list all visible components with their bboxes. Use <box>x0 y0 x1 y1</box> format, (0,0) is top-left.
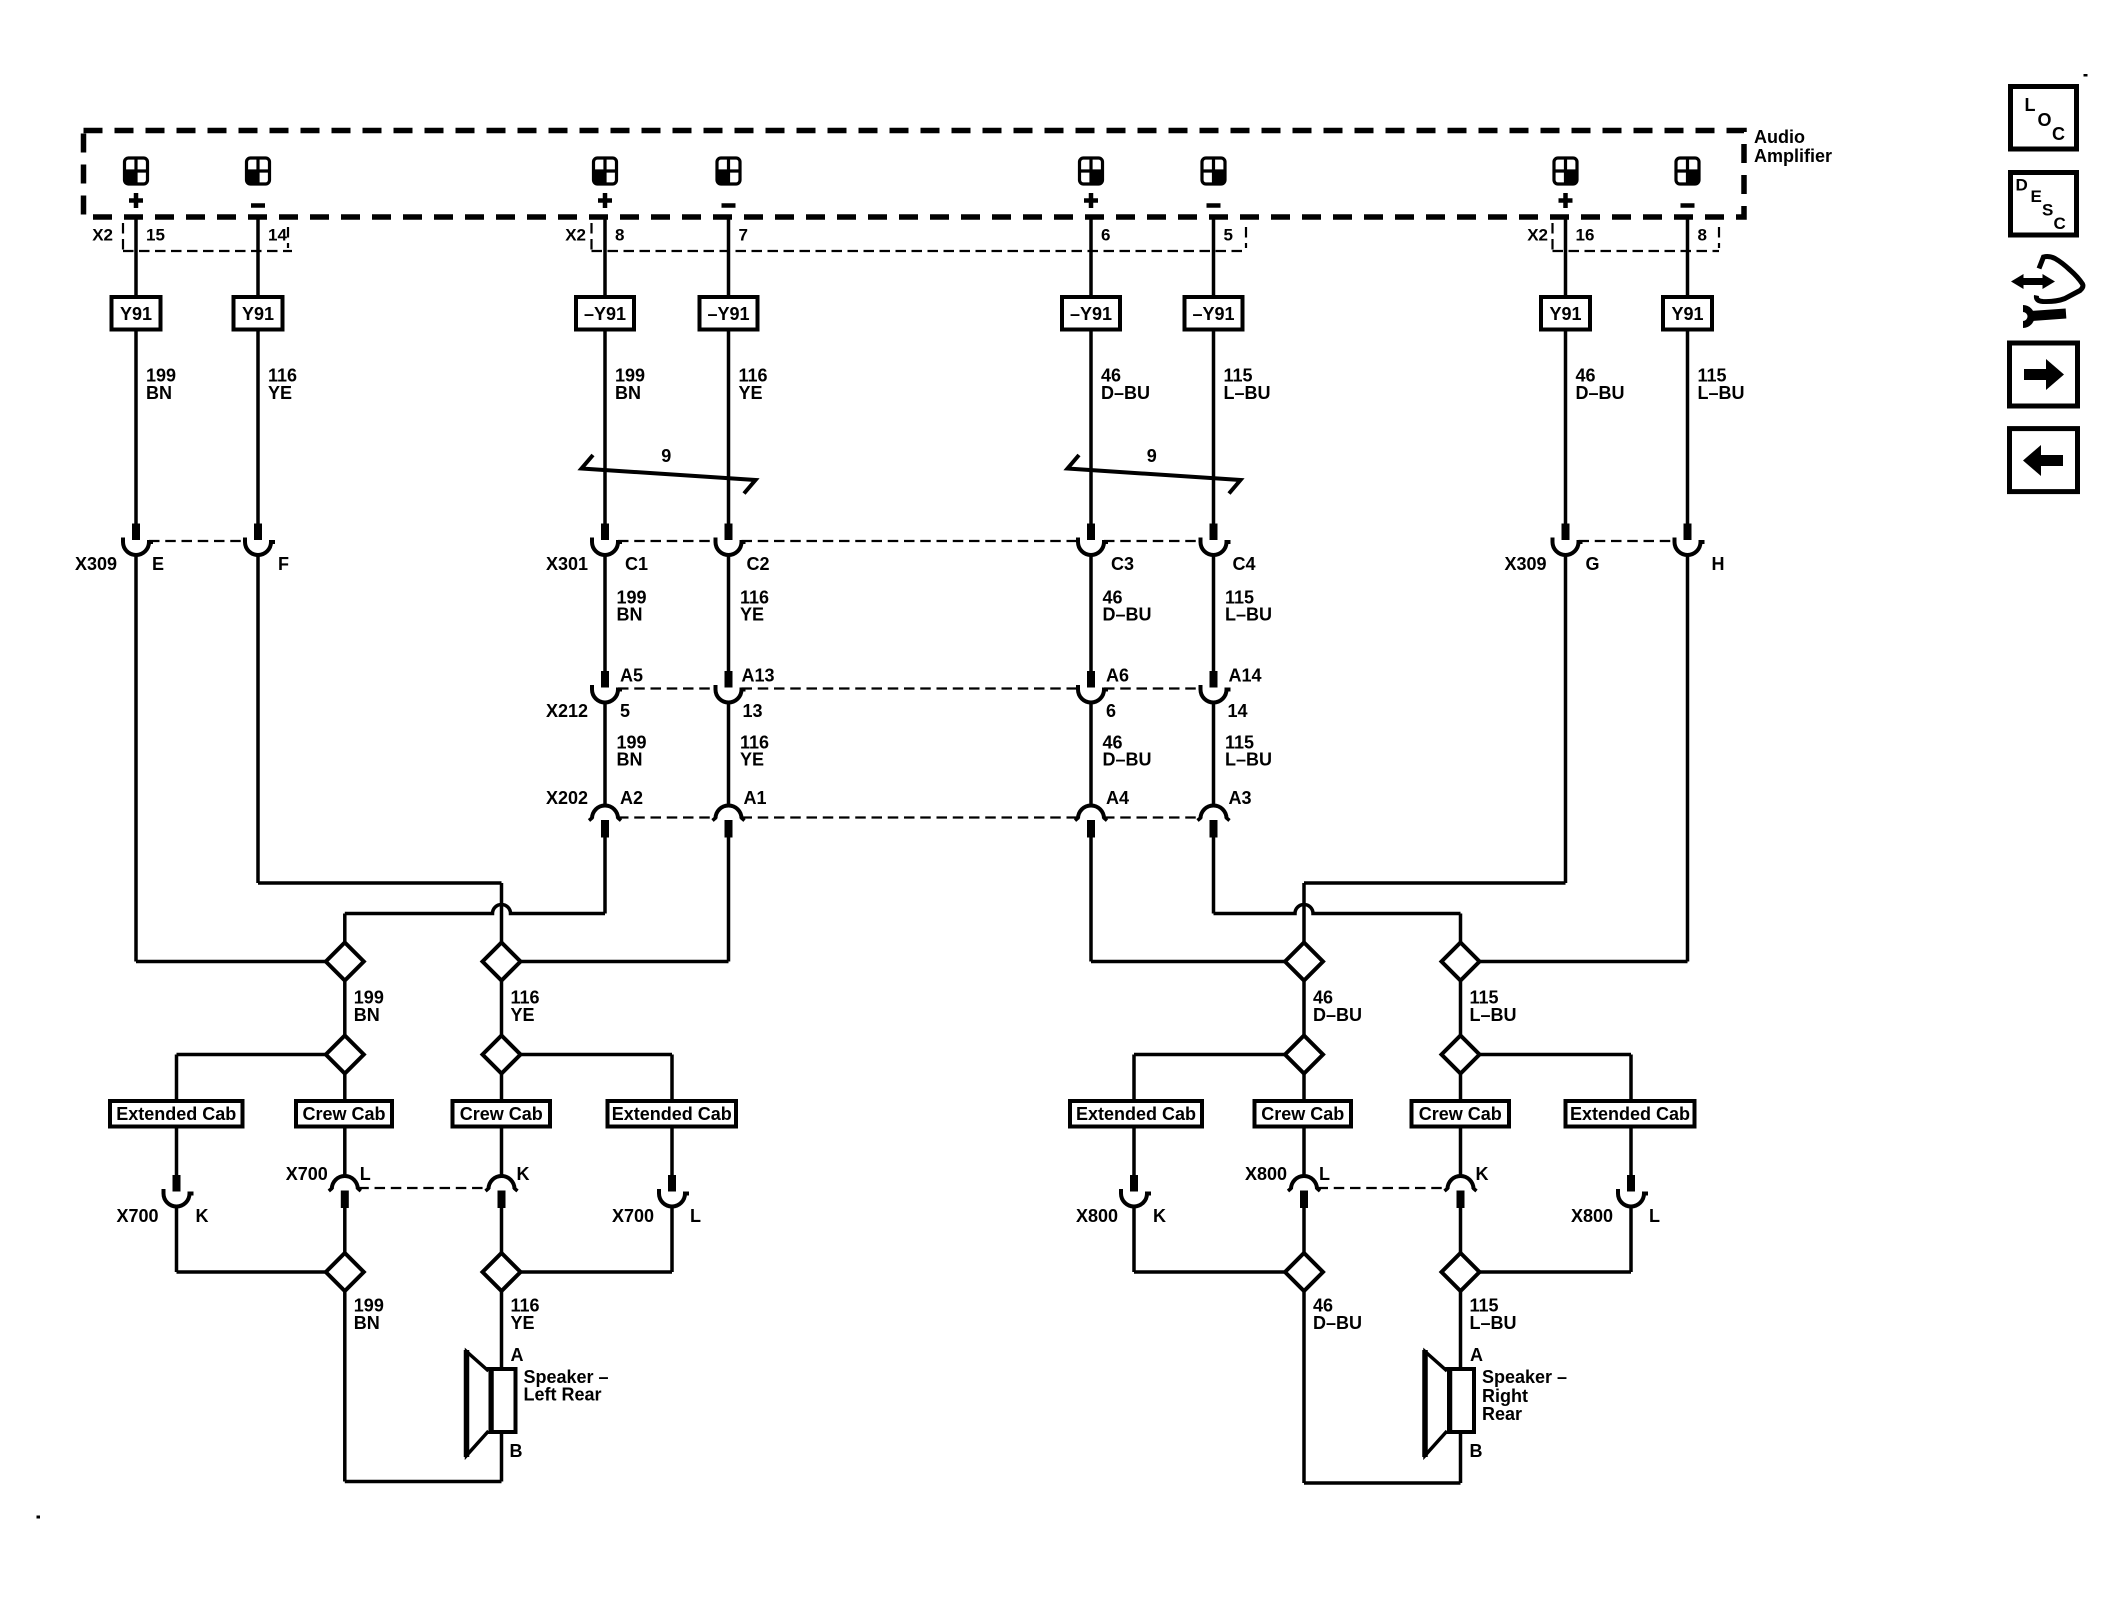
svg-text:D–BU: D–BU <box>1313 1313 1362 1333</box>
svg-text:YE: YE <box>511 1313 535 1333</box>
svg-text:–Y91: –Y91 <box>1070 304 1112 324</box>
svg-text:X700: X700 <box>116 1206 158 1226</box>
svg-text:Amplifier: Amplifier <box>1754 146 1832 166</box>
svg-text:Extended Cab: Extended Cab <box>1076 1104 1196 1124</box>
svg-text:E: E <box>2031 187 2042 206</box>
svg-text:Extended Cab: Extended Cab <box>1570 1104 1690 1124</box>
svg-text:Extended Cab: Extended Cab <box>612 1104 732 1124</box>
svg-text:E: E <box>152 554 164 574</box>
svg-text:A6: A6 <box>1106 666 1129 686</box>
svg-text:C2: C2 <box>747 554 770 574</box>
svg-text:C1: C1 <box>625 554 648 574</box>
svg-text:8: 8 <box>615 226 624 245</box>
svg-text:L–BU: L–BU <box>1225 605 1272 625</box>
svg-text:6: 6 <box>1101 226 1110 245</box>
svg-text:L: L <box>360 1164 371 1184</box>
svg-text:K: K <box>1476 1164 1489 1184</box>
svg-text:D–BU: D–BU <box>1103 605 1152 625</box>
svg-text:L: L <box>690 1206 701 1226</box>
svg-text:X700: X700 <box>286 1164 328 1184</box>
svg-text:D–BU: D–BU <box>1103 750 1152 770</box>
svg-text:BN: BN <box>354 1313 380 1333</box>
svg-text:A4: A4 <box>1106 788 1129 808</box>
svg-text:Crew Cab: Crew Cab <box>1419 1104 1502 1124</box>
svg-text:YE: YE <box>268 383 292 403</box>
svg-text:X700: X700 <box>612 1206 654 1226</box>
svg-text:D–BU: D–BU <box>1313 1005 1362 1025</box>
svg-text:14: 14 <box>268 226 287 245</box>
svg-text:A: A <box>1470 1345 1483 1365</box>
svg-text:Left Rear: Left Rear <box>524 1385 602 1405</box>
svg-text:Crew Cab: Crew Cab <box>1261 1104 1344 1124</box>
svg-text:F: F <box>278 554 289 574</box>
svg-text:Speaker –: Speaker – <box>1482 1367 1567 1387</box>
svg-text:16: 16 <box>1576 226 1595 245</box>
svg-text:YE: YE <box>739 383 763 403</box>
svg-text:Crew Cab: Crew Cab <box>302 1104 385 1124</box>
svg-text:15: 15 <box>146 226 165 245</box>
svg-text:B: B <box>1470 1441 1483 1461</box>
svg-text:Extended Cab: Extended Cab <box>116 1104 236 1124</box>
svg-text:B: B <box>510 1441 523 1461</box>
svg-text:C3: C3 <box>1111 554 1134 574</box>
svg-text:X2: X2 <box>1527 226 1548 245</box>
svg-text:L–BU: L–BU <box>1698 383 1745 403</box>
svg-text:BN: BN <box>617 750 643 770</box>
svg-text:5: 5 <box>620 701 630 721</box>
svg-text:7: 7 <box>739 226 748 245</box>
svg-text:8: 8 <box>1698 226 1707 245</box>
svg-text:YE: YE <box>511 1005 535 1025</box>
svg-text:Audio: Audio <box>1754 127 1805 147</box>
svg-text:G: G <box>1586 554 1600 574</box>
svg-text:YE: YE <box>740 750 764 770</box>
svg-text:X800: X800 <box>1076 1206 1118 1226</box>
svg-text:Y91: Y91 <box>120 304 152 324</box>
svg-text:X212: X212 <box>546 701 588 721</box>
svg-text:A5: A5 <box>620 666 643 686</box>
svg-text:BN: BN <box>615 383 641 403</box>
svg-text:Y91: Y91 <box>242 304 274 324</box>
svg-text:L–BU: L–BU <box>1225 750 1272 770</box>
svg-text:–Y91: –Y91 <box>707 304 749 324</box>
svg-text:H: H <box>1712 554 1725 574</box>
svg-text:13: 13 <box>743 701 763 721</box>
svg-text:6: 6 <box>1106 701 1116 721</box>
svg-text:X800: X800 <box>1571 1206 1613 1226</box>
svg-text:14: 14 <box>1228 701 1248 721</box>
svg-text:L: L <box>2025 95 2036 115</box>
svg-text:–Y91: –Y91 <box>1192 304 1234 324</box>
svg-text:X309: X309 <box>1504 554 1546 574</box>
svg-text:L–BU: L–BU <box>1470 1313 1517 1333</box>
svg-text:BN: BN <box>354 1005 380 1025</box>
svg-text:Crew Cab: Crew Cab <box>460 1104 543 1124</box>
svg-text:A13: A13 <box>742 666 775 686</box>
svg-text:A14: A14 <box>1229 666 1262 686</box>
svg-text:Y91: Y91 <box>1549 304 1581 324</box>
svg-text:9: 9 <box>1147 446 1157 466</box>
svg-text:Rear: Rear <box>1482 1404 1522 1424</box>
svg-text:X2: X2 <box>565 226 586 245</box>
svg-text:X301: X301 <box>546 554 588 574</box>
svg-text:Y91: Y91 <box>1671 304 1703 324</box>
svg-text:A2: A2 <box>620 788 643 808</box>
svg-text:A: A <box>511 1345 524 1365</box>
svg-text:–Y91: –Y91 <box>584 304 626 324</box>
svg-text:X202: X202 <box>546 788 588 808</box>
svg-text:D–BU: D–BU <box>1101 383 1150 403</box>
svg-text:L: L <box>1649 1206 1660 1226</box>
svg-text:Right: Right <box>1482 1386 1528 1406</box>
svg-text:YE: YE <box>740 605 764 625</box>
svg-text:D: D <box>2016 176 2028 195</box>
svg-text:X309: X309 <box>75 554 117 574</box>
svg-text:L: L <box>1319 1164 1330 1184</box>
svg-text:L–BU: L–BU <box>1470 1005 1517 1025</box>
svg-text:K: K <box>1153 1206 1166 1226</box>
svg-text:C: C <box>2054 214 2066 233</box>
svg-text:K: K <box>517 1164 530 1184</box>
svg-text:K: K <box>196 1206 209 1226</box>
svg-text:BN: BN <box>617 605 643 625</box>
svg-text:X800: X800 <box>1245 1164 1287 1184</box>
svg-text:D–BU: D–BU <box>1576 383 1625 403</box>
svg-text:9: 9 <box>661 446 671 466</box>
svg-text:O: O <box>2038 110 2052 130</box>
svg-text:A3: A3 <box>1229 788 1252 808</box>
svg-text:5: 5 <box>1224 226 1233 245</box>
svg-text:L–BU: L–BU <box>1224 383 1271 403</box>
svg-text:C: C <box>2052 124 2065 144</box>
svg-text:BN: BN <box>146 383 172 403</box>
svg-text:S: S <box>2042 201 2053 220</box>
svg-text:C4: C4 <box>1233 554 1256 574</box>
svg-text:X2: X2 <box>92 226 113 245</box>
svg-text:A1: A1 <box>744 788 767 808</box>
